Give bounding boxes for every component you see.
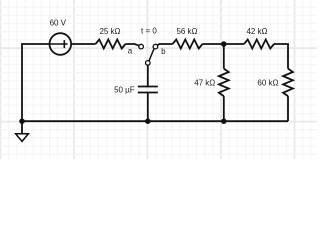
wire R3 to right rail corner down to R5 bbox=[274, 44, 288, 69]
voltage source V1 60 V bbox=[50, 18, 72, 55]
svg-text:25 kΩ: 25 kΩ bbox=[99, 27, 120, 36]
wire junction to R3 bbox=[224, 43, 244, 45]
wire R2 to node junction bbox=[203, 43, 224, 45]
svg-text:47 kΩ: 47 kΩ bbox=[194, 79, 215, 88]
svg-text:42 kΩ: 42 kΩ bbox=[246, 27, 267, 36]
node bottom of capacitor bbox=[145, 118, 151, 124]
svg-text:50 µF: 50 µF bbox=[114, 85, 135, 94]
svg-text:b: b bbox=[161, 47, 166, 56]
svg-text:60 kΩ: 60 kΩ bbox=[257, 79, 278, 88]
resistor R5 60 kΩ bbox=[257, 69, 293, 122]
resistor R4 47 kΩ bbox=[194, 44, 229, 121]
capacitor C1 50 µF bbox=[114, 85, 158, 94]
wire switch pole down to capacitor bbox=[147, 65, 149, 87]
wire R1 to switch terminal a bbox=[126, 44, 140, 46]
svg-text:60 V: 60 V bbox=[50, 18, 67, 27]
node bottom of R4 bbox=[221, 118, 227, 124]
ground bbox=[16, 121, 29, 141]
wire switch b to R2 bbox=[157, 44, 172, 45]
resistor R3 42 kΩ bbox=[244, 27, 274, 49]
switch SW1 t = 0 bbox=[128, 26, 166, 65]
node junction top of R4 bbox=[221, 41, 227, 47]
svg-text:t = 0: t = 0 bbox=[141, 26, 157, 35]
resistor R1 25 kΩ bbox=[96, 27, 126, 49]
svg-text:a: a bbox=[128, 46, 133, 55]
wire bottom rail bbox=[22, 120, 288, 122]
node bottom-left ground junction bbox=[19, 118, 25, 124]
svg-text:56 kΩ: 56 kΩ bbox=[176, 27, 197, 36]
wire capacitor to bottom rail bbox=[147, 93, 149, 122]
wire top-left from source to left rail corner bbox=[22, 44, 50, 121]
wire source to R1 bbox=[71, 43, 95, 45]
resistor R2 56 kΩ bbox=[173, 27, 203, 49]
